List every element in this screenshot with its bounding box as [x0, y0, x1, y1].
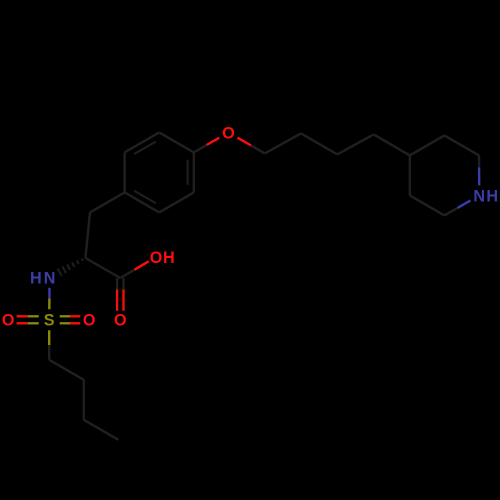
bond benzylic CH2 - alpha C — [85, 212, 90, 258]
bond carboxyl C-OH — [120, 270, 134, 278]
bond ether O-CH2 chain — [238, 138, 252, 146]
bond piperidine N-C11 — [458, 200, 471, 208]
bond chain C2-C3 — [301, 133, 337, 154]
svg-text:O: O — [2, 312, 15, 330]
bond piperidine C9-C8 — [410, 135, 445, 155]
bond sulfonamide N-S — [48, 288, 50, 299]
aromatic inner line phenyl inner 2 — [134, 191, 156, 203]
bond ether O - phenyl — [207, 138, 220, 145]
aromatic inner line phenyl inner 3 — [187, 160, 189, 185]
aromatic inner line phenyl inner 1 — [134, 142, 156, 154]
double bond sulfonyl S=O left — [28, 315, 39, 317]
svg-text:S: S — [44, 312, 55, 330]
svg-text:N: N — [473, 187, 485, 205]
bond piperidine C7-N — [478, 155, 481, 167]
bond phenyl - benzylic CH2 — [90, 192, 125, 212]
bond butyl C2-C3 — [83, 380, 85, 420]
bond chain C1-C2 — [265, 133, 301, 153]
double bond sulfonyl S=O right — [60, 322, 70, 324]
bond phenyl A1-A2 — [159, 132, 194, 152]
svg-text:O: O — [114, 312, 127, 330]
bond piperidine C8-C7 — [444, 135, 479, 155]
stereo hash wedge bond alpha C - sulfonamide N — [82, 259, 83, 262]
bond piperidine C10-C9 — [409, 155, 411, 195]
bond phenyl A4-A5 — [125, 192, 160, 212]
svg-text:H: H — [163, 249, 175, 267]
svg-text:N: N — [44, 270, 56, 288]
double bond carboxyl C=O — [116, 278, 118, 290]
bond phenyl A6-A1 — [193, 152, 195, 192]
bond chain C4 - piperidine C4 — [374, 134, 410, 155]
svg-text:O: O — [222, 124, 235, 142]
bond phenyl A2-A3 — [125, 132, 160, 152]
bond butyl C3-C4 — [84, 420, 119, 440]
svg-text:O: O — [83, 312, 96, 330]
bond phenyl A3-A4 — [123, 152, 125, 192]
svg-text:H: H — [486, 187, 498, 205]
bond butyl S-C — [48, 330, 50, 345]
svg-text:O: O — [150, 249, 163, 267]
bond butyl C1-C2 — [49, 360, 84, 380]
bond phenyl A5-A6 — [159, 192, 194, 212]
bond chain C3-C4 — [337, 134, 373, 154]
svg-text:H: H — [30, 270, 42, 288]
bond piperidine C11-C10 — [410, 195, 445, 215]
bond alpha C - carboxyl C — [85, 258, 120, 278]
